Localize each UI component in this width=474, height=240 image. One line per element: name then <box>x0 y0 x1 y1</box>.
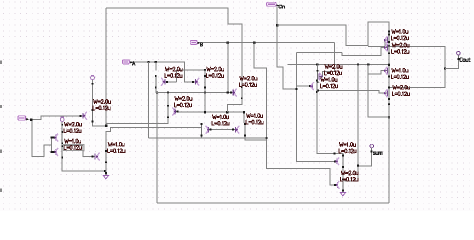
wire: VDD2 stem <box>92 80 94 110</box>
transistor TD <box>384 87 390 100</box>
transistor T5 <box>230 86 243 99</box>
wire: TC source stub down to cout tap <box>388 76 390 87</box>
value label TB <box>392 43 409 47</box>
transistor N1 (inverter nmos) <box>52 145 63 158</box>
value label T7 <box>247 114 263 118</box>
input pin A <box>122 60 129 64</box>
wire: T6 gate long wire y112.2 <box>177 112 244 123</box>
wire: Cin rect top edge <box>297 52 342 54</box>
vdd symbol middle <box>91 75 95 79</box>
transistor T8 <box>201 123 212 136</box>
wire: B vertical to T5 gate rail <box>227 43 229 93</box>
input pin left (B) <box>18 116 26 121</box>
wire: T8 source stub <box>200 135 202 138</box>
value label T12 <box>341 171 358 175</box>
output pin Cout <box>457 51 471 61</box>
wire: Cin right leg to TB gate <box>342 48 385 56</box>
wire: sum pin connection <box>358 152 372 166</box>
output pin sum <box>370 144 382 154</box>
wire: TD source stub down <box>388 99 390 104</box>
transistor P2 <box>79 109 93 122</box>
transistor T7 <box>232 123 246 136</box>
transistor right pass <box>192 75 206 88</box>
wire: T11 to T12 <box>342 167 344 179</box>
wire: T7 source to x266 vertical <box>245 135 267 140</box>
transistor T12 <box>334 178 344 191</box>
transistor N2 <box>92 150 107 163</box>
wire: sum net vertical <box>357 65 359 166</box>
wire: N2 source to ground <box>105 162 107 174</box>
value label right pass <box>207 67 224 71</box>
wire: Cin left leg down to T11 gate <box>297 53 335 162</box>
gnd symbol left block <box>103 176 108 179</box>
wire: T6 drain up to rail <box>167 93 169 106</box>
wire: left pass source bend <box>155 88 157 93</box>
wire: T12 source to ground <box>342 191 344 193</box>
transistor T6 <box>167 105 178 118</box>
wire: N2 drain up and right to T8 drain <box>106 124 201 151</box>
wire: right pass source bend <box>204 88 206 93</box>
vdd symbol left <box>60 117 64 121</box>
wire: sum tap long horizontal y64.6 <box>288 64 389 66</box>
wire: input B horizontal <box>200 42 335 44</box>
wire: P1-N1 connection and inverter output <box>61 143 63 146</box>
wire: T5 source jog to y112 <box>227 98 242 112</box>
gnd symbol T12 <box>340 193 345 196</box>
transistor TA <box>384 34 390 47</box>
wire: Cout route <box>368 46 445 87</box>
wire: B branch right to T9 gate <box>322 43 335 77</box>
wire: long vertical x106 down left side <box>105 8 107 126</box>
wire: left pin route to P2 gate <box>32 116 80 120</box>
wire: stub from A wire to left pass transistor drain <box>155 62 157 71</box>
value label N1 <box>65 139 81 143</box>
wire: sum branch to T12 drain <box>345 166 358 181</box>
input pin B <box>190 40 197 44</box>
wire: input A horizontal <box>132 62 193 82</box>
wire: T10 source down and right to T11 drain <box>317 92 343 156</box>
value label T11 <box>339 143 355 147</box>
wire: P2 source to T6 source (node merges x106 vertical) <box>93 117 168 126</box>
value label T5 <box>240 76 257 80</box>
transistor left pass <box>155 75 168 88</box>
wire: bottom loop <box>157 202 389 204</box>
wire: TB source stub down to sum tap <box>388 53 390 64</box>
value label TD <box>393 85 410 89</box>
transistor T10 <box>309 80 318 93</box>
value label TA <box>392 30 408 34</box>
wire: T9 drain stub <box>316 65 318 71</box>
wire: Cin stem and jog down to x296 <box>277 7 296 89</box>
wire: T10 gate stub <box>297 85 310 87</box>
wire: mid vertical x204.9 <box>204 93 206 113</box>
wire: x368 vertical and link to stack bottom <box>368 65 389 118</box>
wire: inverter gate bar <box>51 138 53 152</box>
wire: pass pair source rail y92.6 <box>155 92 230 94</box>
value label P1 <box>65 122 82 126</box>
value label N2 <box>108 142 124 146</box>
wire: source rail y138 <box>148 137 266 139</box>
wire: VDD1 stem <box>61 122 63 132</box>
wire: stack bottom vertical to bottom loop <box>388 104 390 203</box>
wire: TC gate feed <box>368 71 385 74</box>
value label P2 <box>94 100 111 104</box>
value label T8 <box>213 115 229 119</box>
value label T10 <box>321 78 337 82</box>
wire: left pass gate riser and y70 link to right pass drain <box>167 81 176 83</box>
transistor T9 <box>317 70 323 83</box>
input pin Cin <box>267 2 277 6</box>
wire: long vertical x157 from pass rail to bottom loop <box>156 93 158 203</box>
value label left pass <box>165 67 182 71</box>
wire: B branch via x266 down to T12 gate <box>254 43 335 185</box>
value label T9 <box>325 65 342 69</box>
wire: Cin top route to output stack top <box>277 22 389 46</box>
value label T6 <box>175 97 192 101</box>
wire: T8-T7 gate link <box>211 129 233 131</box>
wire: top loop from x106 across top to T5 drain <box>106 8 242 87</box>
wire: left pin down to inverter gates <box>32 119 52 156</box>
transistor T11 <box>334 155 344 168</box>
transistor P1 (inverter pmos) <box>52 131 63 144</box>
wire: TA TB gate tie <box>384 40 386 48</box>
transistor TB <box>384 41 390 54</box>
wire: TD gate feed horizontal <box>318 91 385 94</box>
left window edge ticks <box>0 61 2 64</box>
transistor TC <box>384 64 390 77</box>
wire: A vertical to lower rail <box>147 62 149 138</box>
wire: N1 source to ground <box>62 158 106 171</box>
value label TC <box>392 68 408 72</box>
